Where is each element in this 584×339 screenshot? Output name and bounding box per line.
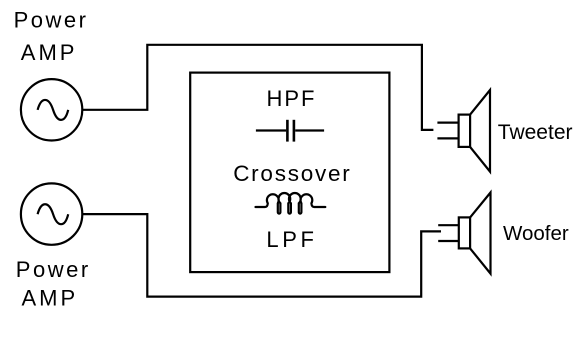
AC source V1 (top power amp) [21, 79, 82, 140]
speaker tweeter [437, 90, 490, 172]
svg-text:AMP: AMP [21, 40, 78, 65]
svg-text:Power: Power [14, 7, 89, 32]
svg-text:Power: Power [16, 257, 91, 282]
svg-text:Crossover: Crossover [233, 161, 351, 186]
wire top amp to tweeter [82, 45, 433, 130]
label Power AMP (top source) [14, 7, 89, 65]
wire bottom amp to woofer [82, 214, 441, 297]
AC source V2 (bottom power amp) [21, 183, 82, 244]
inductor L1 (LPF coil) [256, 193, 326, 214]
svg-text:Woofer: Woofer [503, 222, 569, 245]
speaker woofer [438, 193, 490, 274]
svg-text:HPF: HPF [267, 86, 317, 111]
svg-text:LPF: LPF [266, 227, 317, 252]
capacitor (HPF) [256, 120, 324, 142]
svg-text:Tweeter: Tweeter [498, 121, 573, 144]
crossover box [190, 73, 389, 273]
label Power AMP (bottom source) [16, 257, 91, 311]
svg-text:AMP: AMP [22, 286, 79, 311]
